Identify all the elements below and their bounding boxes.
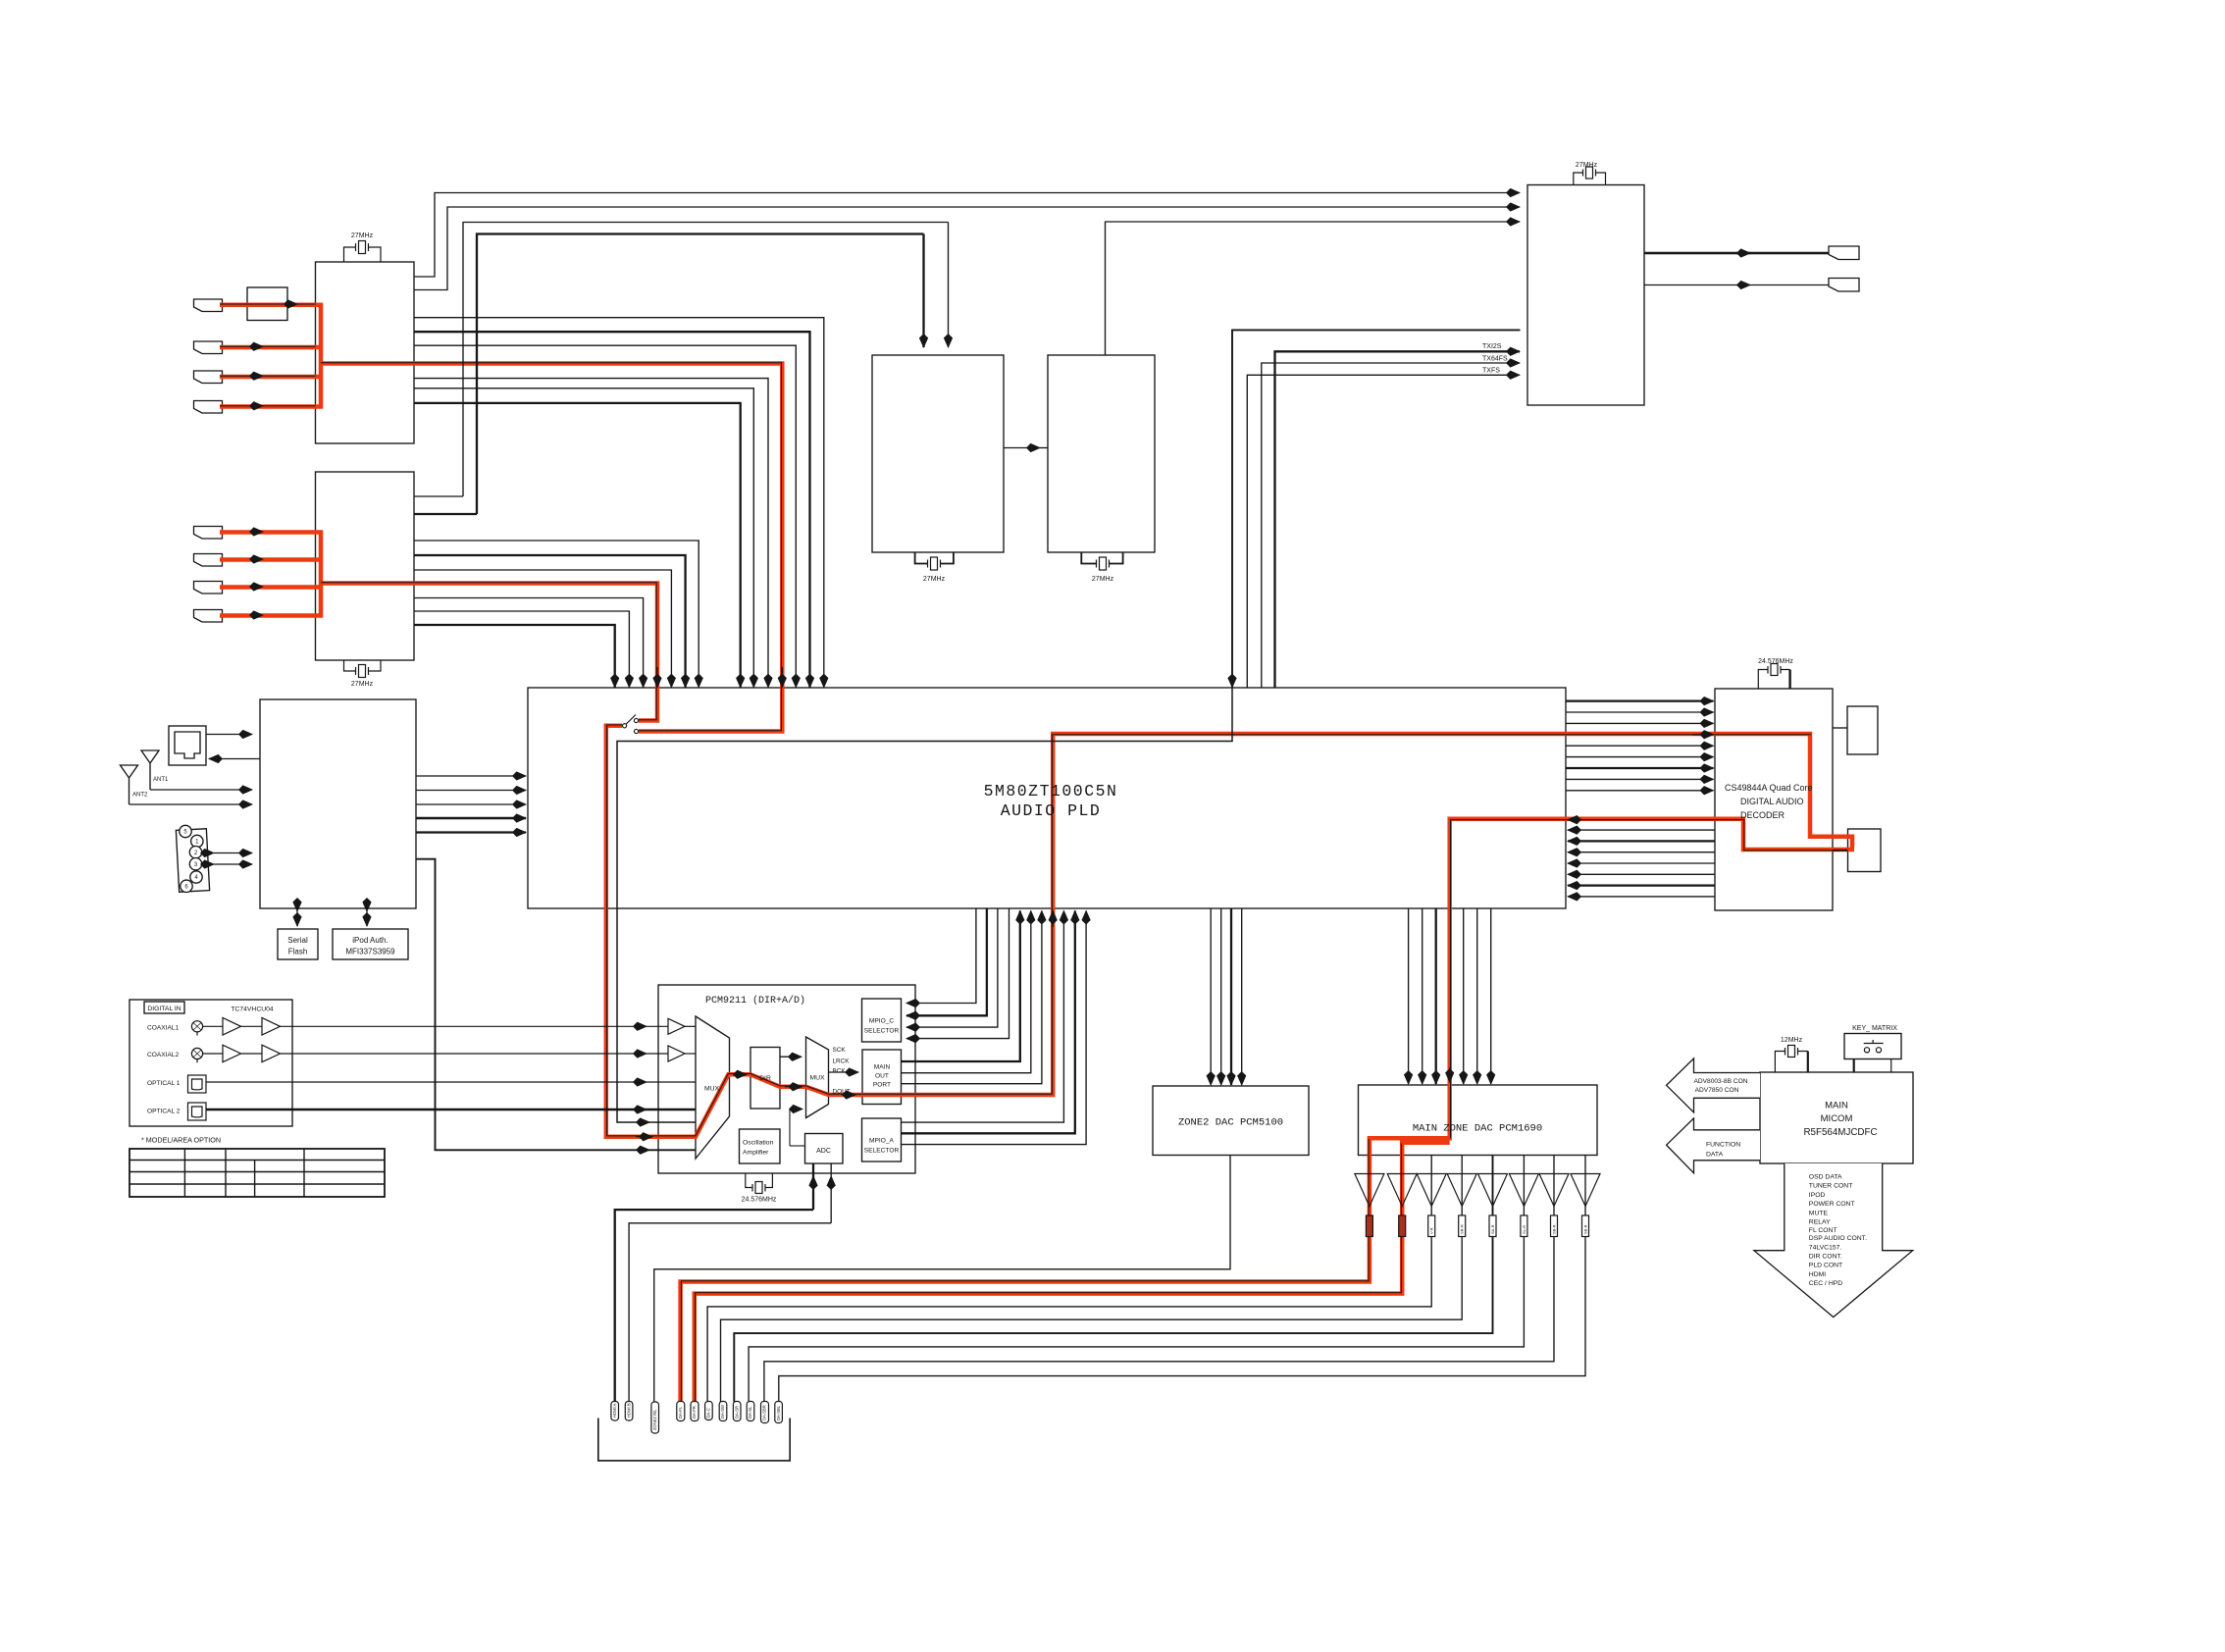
arrow HDMI in4 <box>250 405 263 407</box>
svg-text:PLD CONT: PLD CONT <box>1809 1263 1842 1269</box>
svg-text:MPIO_A: MPIO_A <box>869 1138 895 1145</box>
wire PLD to CS 5 <box>1566 745 1714 747</box>
op-amps and resistors below PCM1690 <box>1355 1174 1600 1237</box>
svg-text:ADC: ADC <box>816 1148 831 1155</box>
connector CN5 out FR <box>691 1402 699 1421</box>
wire RX-A out y323.7 <box>414 318 824 688</box>
connector RCA COAXIAL1 <box>191 1021 202 1036</box>
svg-text:Flash: Flash <box>288 948 308 956</box>
svg-text:Amplifier: Amplifier <box>743 1150 769 1157</box>
svg-text:LRCK: LRCK <box>833 1058 851 1065</box>
svg-text:ANT1: ANT1 <box>153 777 169 783</box>
block U3 video proc C <box>872 355 1004 552</box>
wire RX-A top out 2 to HDMI TX in2 <box>414 207 1520 290</box>
svg-text:MAIN: MAIN <box>874 1064 891 1071</box>
arrow HDMI in8 <box>250 614 263 616</box>
connector CN3 zone2 out <box>651 1402 659 1433</box>
wire CS to PLD 4 <box>1568 852 1715 853</box>
wire tuner to iPod Auth bidirectional <box>366 911 368 926</box>
block U10 iPod Auth MFI337S3959 <box>333 929 408 959</box>
svg-text:HDMI: HDMI <box>1809 1271 1826 1278</box>
connector HDMI IN 5 <box>194 527 223 540</box>
block KEY_MATRIX <box>1844 1034 1901 1059</box>
crystal X7 24.576MHz below PCM9211 <box>746 1173 773 1194</box>
svg-text:TXFS: TXFS <box>1482 368 1500 375</box>
svg-text:27MHz: 27MHz <box>1092 576 1114 583</box>
wire TXI2S <box>1275 351 1521 688</box>
svg-text:27MHz: 27MHz <box>351 232 374 239</box>
connector HDMI OUT MAIN <box>1829 246 1859 260</box>
wire PLD to ZONE2 DAC 3 thick <box>1230 908 1232 1085</box>
buffer U13d <box>262 1045 281 1062</box>
opamp A6 <box>1509 1174 1538 1207</box>
svg-text:DA-FR: DA-FR <box>692 1406 697 1419</box>
connector CN4 out FL <box>677 1402 685 1421</box>
resistor R3 <box>1428 1215 1435 1237</box>
wire PLD to CS 6 <box>1566 756 1714 758</box>
wire red RX-B main out to switch upper contact <box>321 584 657 721</box>
block MAIN MICOM R5F564MJCDFC <box>1760 1072 1913 1163</box>
svg-text:ZONE2 DAC PCM5100: ZONE2 DAC PCM5100 <box>1178 1117 1283 1129</box>
mux MUX1 <box>696 1016 730 1159</box>
connector TOSLINK OPTICAL2 <box>188 1103 207 1120</box>
svg-text:24.576MHz: 24.576MHz <box>742 1197 777 1204</box>
wire CS to PLD 3 thick <box>1568 840 1715 842</box>
svg-text:24.576MHz: 24.576MHz <box>1758 658 1793 665</box>
wire core RX-A stubs <box>220 304 316 406</box>
svg-text:DA-SW: DA-SW <box>720 1405 725 1419</box>
connector CN8 out SR <box>733 1402 741 1421</box>
wire red RX-A trunk <box>319 303 324 409</box>
arrow red into PCM1690 <box>1449 1067 1451 1082</box>
svg-text:MFI337S3959: MFI337S3959 <box>345 948 395 956</box>
wire bus line to block C input 2 <box>463 223 949 497</box>
svg-text:TUNER CONT: TUNER CONT <box>1809 1183 1853 1190</box>
svg-text:DA-SBL: DA-SBL <box>776 1405 781 1420</box>
wire PLD to CS 3 <box>1566 722 1714 724</box>
svg-text:DIGITAL IN: DIGITAL IN <box>147 1006 181 1012</box>
wire key matrix to MICOM 1 thick <box>1853 1059 1855 1073</box>
wire ADC clock from MUX2 area <box>790 1110 802 1147</box>
connector CN10 out SBR <box>761 1402 769 1423</box>
svg-text:DECODER: DECODER <box>1740 810 1785 820</box>
wire core switch to MUX <box>607 725 750 1136</box>
wire core RX-B main <box>321 583 656 720</box>
wire HDMI TX out2 <box>1644 284 1829 286</box>
wire CS to PLD 8 <box>1568 896 1715 898</box>
svg-text:DA-SBR: DA-SBR <box>762 1405 767 1420</box>
antenna ANT2 <box>121 765 138 804</box>
wire RX-B out y581 <box>414 570 671 688</box>
opamp A3 <box>1417 1174 1446 1207</box>
wire PCM1690 out8 <box>779 1156 1585 1403</box>
bracket under connectors <box>598 1419 790 1461</box>
wire block C input 2 drop <box>948 223 950 348</box>
svg-text:PORT: PORT <box>873 1082 891 1089</box>
svg-text:DA-C: DA-C <box>706 1408 711 1418</box>
wire RX-A top out 1 to HDMI TX in1 <box>414 193 1520 278</box>
svg-text:ADV7850 CON: ADV7850 CON <box>1695 1087 1739 1094</box>
svg-text:CEC / HPD: CEC / HPD <box>1809 1280 1842 1287</box>
block MAIN ZONE DAC PCM1690 <box>1359 1085 1598 1156</box>
wire PLD internal to PCM9211 MUX in5 <box>617 688 1232 1122</box>
wire RX-A out y410.9 thick <box>414 403 741 688</box>
wire PLD to PCM1690 3 thick <box>1435 908 1437 1084</box>
connector CN11 out SBL <box>775 1402 783 1423</box>
crystal X6 24.576MHz above CS49844A <box>1758 664 1789 690</box>
box filter on HDMI input 1 <box>247 287 287 321</box>
wire PLD to CS 1 thick <box>1566 699 1714 701</box>
opamp A2 <box>1387 1174 1417 1207</box>
switch key matrix button <box>1864 1048 1869 1053</box>
block DIR <box>750 1048 780 1110</box>
wire MAIN OUT PORT row3 to PLD <box>902 911 1042 1084</box>
block U7 CS49844A decoder <box>1715 689 1833 910</box>
arrow HDMI in1 <box>285 303 297 305</box>
switch SW1 upper contact <box>634 718 638 722</box>
label box DIGITAL IN <box>144 1002 184 1013</box>
table rows <box>129 1161 385 1185</box>
tiny numbers in DIN circles <box>183 830 199 891</box>
svg-text:COAXIAL1: COAXIAL1 <box>147 1025 180 1032</box>
svg-text:SCK: SCK <box>833 1047 847 1054</box>
wire red RX-B trunk <box>319 531 324 618</box>
connector HDMI IN 3 <box>194 371 223 384</box>
resistor R4 <box>1459 1215 1466 1237</box>
block U5 HDMI TX <box>1527 185 1644 406</box>
wire tuner to PLD 1 <box>416 775 526 777</box>
wire PLD to ZONE2 DAC 1 <box>1210 908 1212 1085</box>
wire ADC input 2 <box>830 1176 832 1223</box>
svg-text:ADV8003-8B CON: ADV8003-8B CON <box>1694 1078 1748 1085</box>
svg-text:TXI2S: TXI2S <box>1482 343 1502 350</box>
connector HDMI IN 6 <box>194 554 223 567</box>
wire block C input 1 drop thick <box>922 234 924 348</box>
wire PCM1690 out7 <box>764 1156 1554 1403</box>
svg-text:MUX: MUX <box>809 1075 825 1082</box>
hollow arrow FUNCTION DATA <box>1667 1118 1760 1173</box>
wire RJ45 to tuner <box>206 734 252 736</box>
table columns <box>184 1149 304 1197</box>
wire core DAC outs <box>681 1139 1401 1402</box>
svg-text:KEY_ MATRIX: KEY_ MATRIX <box>1852 1025 1897 1032</box>
connector RCA COAXIAL2 <box>191 1048 202 1062</box>
wire COAXIAL1 chain <box>203 1025 262 1027</box>
crystal X8 12MHz above MICOM <box>1775 1046 1807 1073</box>
switch SW1 common <box>623 724 627 728</box>
wire MPIO_C row2 from PLD thick <box>906 908 987 1015</box>
wire OPTICAL1 to PCM9211 <box>206 1081 647 1083</box>
svg-text:ANT2: ANT2 <box>132 793 148 799</box>
wire HDMI TX in4 from PLD <box>1232 330 1521 687</box>
connector HDMI OUT SUB <box>1829 279 1859 292</box>
svg-text:SL-R: SL-R <box>1522 1225 1526 1234</box>
resistor R5 <box>1489 1215 1496 1237</box>
wire RX-A out y385.6 <box>414 379 768 688</box>
wire CS to PLD 2 <box>1568 829 1715 831</box>
wire tuner to PLD 2 <box>416 790 526 792</box>
hollow arrow ADV con <box>1667 1058 1760 1112</box>
block U4 video proc D <box>1048 355 1155 552</box>
mux MUX2 <box>806 1037 829 1118</box>
svg-text:MAIN: MAIN <box>1825 1101 1848 1111</box>
wire ADC input 1 thick <box>812 1176 814 1210</box>
svg-text:OPTICAL 1: OPTICAL 1 <box>147 1080 181 1087</box>
buffer PCM9211 in1 <box>668 1018 685 1034</box>
svg-text:BCK: BCK <box>833 1068 847 1075</box>
connector DIN jack <box>176 825 209 892</box>
svg-text:12MHz: 12MHz <box>1781 1037 1803 1044</box>
wire core CS to PLD left arrow segment <box>1568 819 1715 821</box>
wire core CS out path <box>1451 820 1848 1139</box>
crystal X3 27MHz below block C <box>915 552 954 570</box>
wire COAXIAL2 to PCM9211 <box>281 1053 647 1055</box>
svg-text:MICOM: MICOM <box>1821 1113 1853 1124</box>
tiny rotated connector labels <box>612 1224 1588 1430</box>
connector CN7 out SW <box>719 1402 727 1421</box>
svg-text:iPod Auth.: iPod Auth. <box>352 936 388 945</box>
wire PCM1690 out4 <box>721 1156 1463 1403</box>
block Oscillation Amplifier <box>740 1129 781 1163</box>
svg-text:MUX: MUX <box>704 1086 720 1093</box>
wire red RX-A input stubs <box>220 305 323 407</box>
wire RX-A out y338.2 thick <box>414 332 810 687</box>
arrow TX out1 <box>1736 252 1750 254</box>
block U6 5M80ZT100C5N AUDIO PLD <box>528 688 1566 908</box>
svg-text:R5F564MJCDFC: R5F564MJCDFC <box>1803 1127 1877 1138</box>
wire key matrix to MICOM 2 <box>1890 1059 1892 1073</box>
block U12 PCM9211 <box>658 985 915 1173</box>
svg-text:MUTE: MUTE <box>1809 1210 1829 1216</box>
svg-text:COAXIAL2: COAXIAL2 <box>147 1052 180 1058</box>
svg-text:Serial: Serial <box>287 936 308 945</box>
block MPIO_C selector <box>862 999 902 1042</box>
buffer U13c <box>223 1045 241 1062</box>
wire CS to aux box lower black stub <box>1833 850 1848 852</box>
wire thick bus to block C input 1 <box>477 234 924 515</box>
wire core RX-A main <box>321 363 782 731</box>
svg-text:DSP AUDIO CONT.: DSP AUDIO CONT. <box>1809 1235 1867 1242</box>
block U2 HDMI RX B <box>316 472 415 660</box>
wire red switch common to PCM9211 MUX <box>606 726 750 1137</box>
wire ANT2 to tuner <box>129 803 253 805</box>
box J3 aux box right of CS49844A upper <box>1847 706 1878 754</box>
connector CN1 audio in L <box>611 1402 619 1421</box>
arrow DOUT <box>842 1094 855 1096</box>
wire CS to PLD 5 <box>1568 862 1715 864</box>
connector HDMI IN 2 <box>194 341 223 354</box>
block MPIO_A selector <box>862 1118 902 1162</box>
arrow PLD to CS red line <box>1692 734 1714 736</box>
wire ANT1 to tuner <box>150 789 252 791</box>
block MAIN OUT PORT <box>862 1050 902 1105</box>
wire MPIO_A row2 to PLD thick <box>902 911 1075 1134</box>
svg-text:DIR: DIR <box>759 1075 771 1082</box>
svg-text:ZONE2 R/L: ZONE2 R/L <box>652 1409 657 1430</box>
arrow red MAIN OUT PORT row4 to PLD <box>1052 911 1054 928</box>
arrow HDMI in2 <box>250 345 263 347</box>
wire PLD to ZONE2 DAC 4 <box>1241 908 1243 1085</box>
svg-text:27MHz: 27MHz <box>351 681 374 688</box>
crystal X5 27MHz above HDMI TX <box>1574 167 1606 185</box>
svg-text:DA-SL: DA-SL <box>748 1406 752 1419</box>
block U1 HDMI RX A <box>316 262 415 443</box>
wire PCM1690 out5 <box>734 1156 1492 1403</box>
arrows on HDMI input stubs <box>250 304 297 615</box>
svg-text:MAIN ZONE DAC PCM1690: MAIN ZONE DAC PCM1690 <box>1413 1123 1542 1135</box>
arrow RX-B red drop into PLD <box>656 667 658 688</box>
svg-text:DA-FL: DA-FL <box>678 1406 683 1419</box>
wire CS to PLD 7 thick <box>1568 884 1715 886</box>
svg-text:POWER CONT: POWER CONT <box>1809 1201 1855 1208</box>
box J4 aux box right of CS49844A lower <box>1848 829 1882 872</box>
wire RX-B out y609.5 <box>414 598 644 688</box>
wire CS to aux box upper <box>1833 727 1847 729</box>
wire HDMI TX out1 <box>1644 252 1829 254</box>
wire PLD to PCM1690 2 <box>1422 908 1423 1084</box>
wire stub into RX-B in2 <box>414 513 477 515</box>
svg-text:IPOD: IPOD <box>1809 1192 1826 1199</box>
opamp A1 <box>1355 1174 1384 1207</box>
switch SW1 lower contact <box>634 729 638 733</box>
wire MPIO_A row1 to PLD <box>902 911 1064 1123</box>
wire OPTICAL2 to PCM9211 thick <box>206 1109 647 1110</box>
svg-text:DIGITAL AUDIO: DIGITAL AUDIO <box>1740 797 1804 806</box>
svg-text:SR-R: SR-R <box>1460 1224 1465 1234</box>
block U11 DIGITAL IN <box>129 1000 292 1126</box>
connector HDMI IN 8 <box>194 610 223 623</box>
arrow TX out2 <box>1736 284 1750 286</box>
wire TX64FS <box>1262 363 1520 688</box>
svg-text:CS49844A Quad Core: CS49844A Quad Core <box>1725 783 1813 793</box>
buffer PCM9211 in2 <box>668 1046 685 1061</box>
wire block D riser to HDMI TX in3 <box>1106 222 1521 355</box>
wire DIN to tuner bidirectional 1 <box>214 852 252 854</box>
resistor R1 <box>1366 1215 1372 1237</box>
wire tuner to RJ45 <box>209 758 260 760</box>
svg-text:DATA: DATA <box>1706 1152 1724 1159</box>
wire PLD to PCM1690 1 <box>1408 908 1410 1084</box>
resistor R7 <box>1551 1215 1558 1237</box>
wire MAIN OUT PORT row2 to PLD <box>902 911 1031 1073</box>
svg-text:V-R: V-R <box>1429 1227 1434 1234</box>
svg-text:SA-R: SA-R <box>1490 1224 1495 1234</box>
wire MAIN OUT PORT row1 to PLD thick <box>902 911 1020 1062</box>
wire PLD to CS 7 thick <box>1566 767 1714 769</box>
svg-text:FUNCTION: FUNCTION <box>1706 1142 1740 1149</box>
wire PLD to PCM1690 7 <box>1490 908 1492 1084</box>
wire MUX2 to MAIN OUT PORT <box>829 1071 859 1073</box>
arrow HDMI in5 <box>250 531 263 533</box>
svg-text:TC74VHCU04: TC74VHCU04 <box>231 1007 274 1013</box>
block ADC <box>805 1134 844 1164</box>
wire RX-B out y637 thick <box>414 625 615 688</box>
wire block C to block D <box>1004 447 1040 449</box>
hollow big down arrow <box>1754 1163 1913 1317</box>
wire PLD to PCM1690 5 <box>1463 908 1465 1084</box>
wire RX-A out y395.8 <box>414 388 753 688</box>
crystal X2 27MHz below RX B <box>344 660 382 678</box>
connector CN9 out SL <box>747 1402 754 1421</box>
wire COAXIAL2 chain <box>203 1053 262 1055</box>
svg-text:74LVC157.: 74LVC157. <box>1809 1244 1842 1251</box>
block U8 tuner/network <box>260 699 416 908</box>
connector HDMI IN 4 <box>194 401 223 414</box>
svg-text:27MHz: 27MHz <box>923 576 946 583</box>
arrow RX-A red drop into PLD <box>781 667 783 688</box>
wire PLD to CS 2 <box>1566 711 1714 713</box>
arrow into DIR <box>734 1073 747 1075</box>
arrow HDMI in7 <box>250 586 263 588</box>
svg-text:HDMI B: HDMI B <box>626 1403 631 1418</box>
svg-text:Oscillation: Oscillation <box>743 1140 774 1147</box>
connector HDMI IN 7 <box>194 582 223 594</box>
table outer <box>129 1149 385 1197</box>
wire TXFS <box>1247 375 1520 688</box>
connector CN2 audio in R <box>625 1402 633 1421</box>
svg-text:FL CONT: FL CONT <box>1809 1227 1837 1234</box>
connector HDMI IN 1 <box>194 299 223 312</box>
opamp A4 <box>1447 1174 1476 1207</box>
buffer U13a <box>223 1018 241 1036</box>
block U9 Serial Flash <box>278 929 318 959</box>
wire PLD to ZONE2 DAC 2 <box>1220 908 1222 1085</box>
svg-text:27MHz: 27MHz <box>1576 162 1598 169</box>
svg-text:AUDIO PLD: AUDIO PLD <box>1001 801 1102 820</box>
connector TOSLINK OPTICAL1 <box>188 1075 207 1093</box>
wire PCM1690 out6 <box>749 1156 1524 1403</box>
wire PCM1690 out3 <box>707 1156 1431 1403</box>
arrow HDMI in6 <box>250 558 263 560</box>
svg-text:5M80ZT100C5N: 5M80ZT100C5N <box>984 782 1118 800</box>
crystal X1 27MHz above RX A <box>344 241 382 263</box>
connector RJ45 jack <box>169 726 206 765</box>
wire red DAC second channel <box>695 1143 1450 1402</box>
svg-text:OSD DATA: OSD DATA <box>1809 1174 1842 1181</box>
svg-text:OUT: OUT <box>875 1073 889 1080</box>
wire tuner to PLD 5 thick <box>416 831 526 833</box>
arrow DIR to MUX2 <box>785 1086 802 1088</box>
svg-text:SELECTOR: SELECTOR <box>864 1028 900 1035</box>
svg-text:HDMI A: HDMI A <box>612 1403 617 1418</box>
wire RX-B out y566 thick <box>414 555 686 688</box>
wire ZONE2 DAC output to connector 3 <box>654 1156 1230 1403</box>
wire red CS49844A out to aux box and to PLD <box>681 819 1854 1402</box>
wire tuner to PCM9211 MUX in7 <box>416 859 649 1151</box>
dark cores over red paths <box>220 304 1848 1402</box>
svg-text:SB-R: SB-R <box>1583 1224 1588 1234</box>
wire MPIO_C row3 from PLD <box>906 908 998 1027</box>
wire tuner to PLD 4 thick <box>416 817 526 819</box>
wire MPIO_C row1 from PLD <box>906 908 976 1004</box>
wire DIN to tuner bidirectional 2 <box>214 863 252 865</box>
svg-text:DOUT: DOUT <box>833 1089 851 1096</box>
buffer U13b <box>262 1018 281 1036</box>
svg-text:RELAY: RELAY <box>1809 1219 1831 1226</box>
switch SW1 lever <box>626 715 636 725</box>
svg-text:PCM9211 (DIR+A/D): PCM9211 (DIR+A/D) <box>705 995 805 1007</box>
svg-text:SELECTOR: SELECTOR <box>864 1148 900 1155</box>
wire tuner to Serial Flash bidirectional <box>296 911 298 926</box>
antenna ANT1 <box>141 750 159 790</box>
wire red RX-A main out to switch lower contact <box>321 364 782 732</box>
wire MPIO_A row3 to PLD <box>902 911 1087 1145</box>
wire PLD to CS 9 <box>1566 790 1714 792</box>
resistor R2 <box>1399 1215 1406 1237</box>
svg-text:OPTICAL 2: OPTICAL 2 <box>147 1109 181 1115</box>
wire PLD to PCM1690 6 <box>1476 908 1478 1084</box>
wire COAXIAL1 to PCM9211 <box>281 1025 647 1027</box>
